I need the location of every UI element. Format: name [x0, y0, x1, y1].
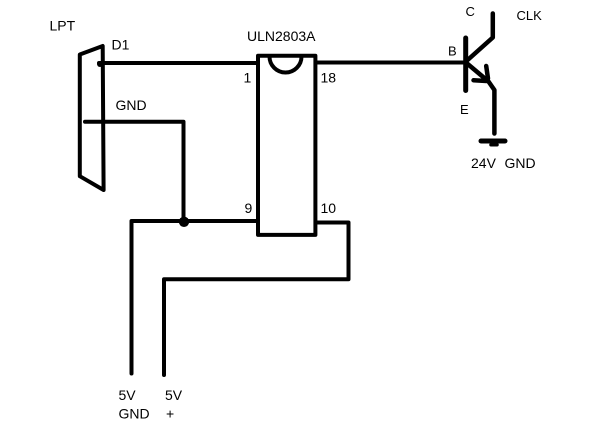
- svg-text:ULN2803A: ULN2803A: [247, 28, 316, 44]
- svg-text:9: 9: [245, 200, 253, 216]
- Q1 collector: [467, 14, 493, 62]
- svg-text:GND: GND: [116, 97, 147, 113]
- svg-text:B: B: [448, 44, 457, 59]
- svg-text:GND: GND: [119, 405, 150, 421]
- Q1 emitter arrow barb left: [474, 78, 487, 83]
- svg-text:E: E: [460, 102, 469, 117]
- IC U1 ULN2803A body: [258, 56, 315, 235]
- svg-text:24V: 24V: [471, 155, 497, 171]
- svg-text:C: C: [466, 4, 475, 19]
- IC U1 notch: [270, 57, 302, 73]
- svg-text:+: +: [166, 405, 174, 421]
- svg-text:GND: GND: [505, 155, 536, 171]
- svg-text:18: 18: [321, 69, 337, 85]
- svg-text:1: 1: [244, 69, 252, 85]
- svg-text:5V: 5V: [119, 387, 137, 403]
- transistor Q1: [466, 14, 495, 134]
- svg-text:LPT: LPT: [50, 17, 76, 33]
- svg-text:CLK: CLK: [517, 8, 543, 23]
- wire pin 18 to transistor base: [316, 61, 464, 65]
- wire 5V GND to pin 9: [132, 221, 259, 374]
- Q1 base bar: [463, 38, 468, 91]
- svg-text:5V: 5V: [165, 387, 183, 403]
- svg-text:D1: D1: [112, 36, 130, 52]
- node junction at D1: [97, 61, 103, 67]
- Q1 emitter arrow barb up: [486, 66, 488, 79]
- wire D1 to U1 pin 1: [99, 61, 257, 65]
- node junction GND/5VGND: [179, 217, 189, 227]
- wire LPT GND horizontal: [85, 122, 184, 219]
- wire pin 10 to 5V plus: [164, 223, 349, 376]
- LPT connector: [80, 46, 104, 190]
- Q1 emitter: [467, 63, 495, 134]
- svg-text:10: 10: [321, 200, 337, 216]
- ground symbol 24V: [481, 141, 505, 145]
